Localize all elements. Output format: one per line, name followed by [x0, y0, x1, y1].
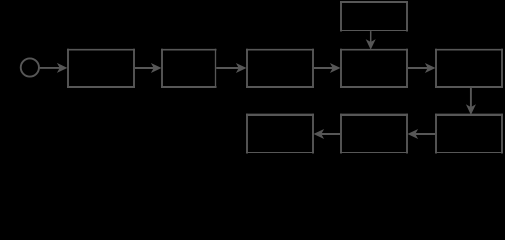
wire bottom-middle box to bottom-left box [315, 130, 340, 138]
wire box4 to box5 [408, 64, 434, 72]
start node circle [21, 58, 39, 76]
wire top box down to box4 [367, 31, 375, 48]
wire start to box1 [40, 64, 67, 72]
process box 4 [340, 49, 408, 88]
wire box5 down to bottom-right box [467, 88, 475, 114]
bottom-left box [246, 114, 314, 154]
wire box3 to box4 [314, 64, 339, 72]
process box 2 [161, 49, 217, 88]
wire box1 to box2 [135, 64, 160, 72]
process box 3 [246, 49, 314, 88]
process box 1 [67, 49, 135, 88]
process box 5 [435, 49, 503, 88]
wire bottom-right box to bottom-middle box [409, 130, 435, 138]
top box [340, 1, 408, 32]
bottom-right box [435, 114, 503, 154]
bottom-middle box [340, 114, 408, 154]
wire box2 to box3 [216, 64, 245, 72]
